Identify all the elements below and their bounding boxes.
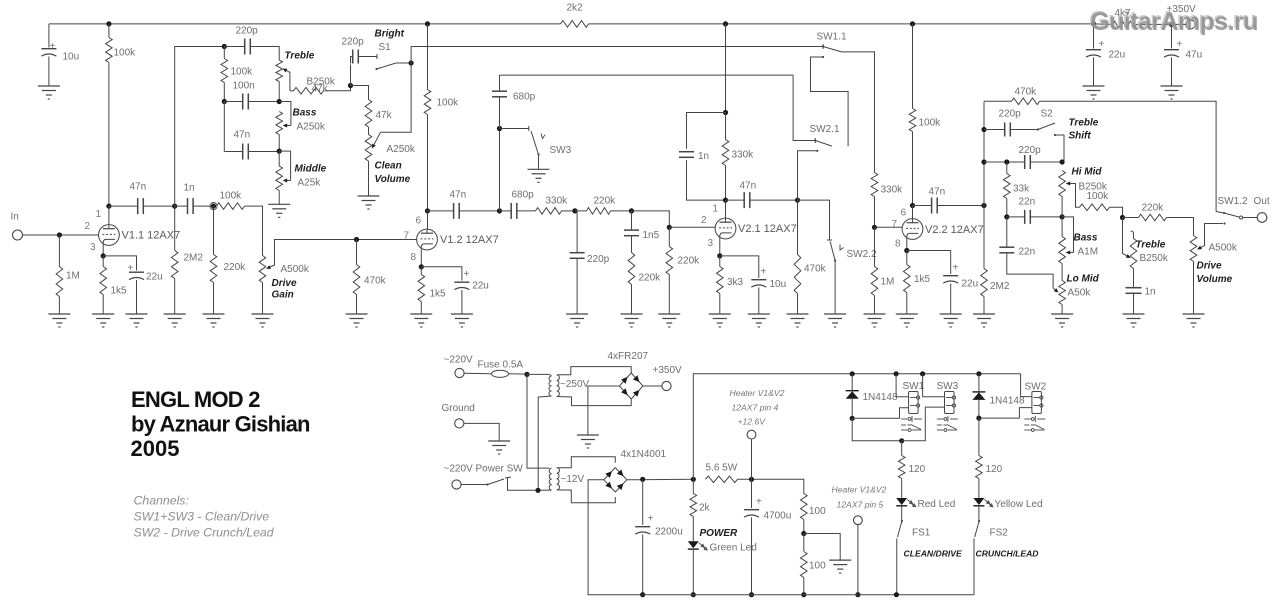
svg-text:1M: 1M <box>881 277 895 288</box>
wire tone2 top wire <box>984 161 1025 163</box>
resistor 220k grid leak V2.1 <box>666 247 673 275</box>
wire plate V2.1 to 47n <box>726 199 745 201</box>
label 47n coupling V1.1 <box>130 182 147 193</box>
junction cathode V2.2 <box>904 248 909 253</box>
wire 33k top lead <box>1006 162 1008 174</box>
wire 33k to 22n node <box>1006 199 1008 217</box>
svg-text:V2.1 12AX7: V2.1 12AX7 <box>738 223 797 235</box>
label 12AX7 pin 4 <box>732 403 779 413</box>
svg-text:680p: 680p <box>513 92 536 103</box>
junction himid top <box>1060 159 1065 164</box>
wire SW3 node up <box>499 129 501 211</box>
svg-text:3: 3 <box>708 238 714 249</box>
wire bridge2 minus down <box>588 480 643 595</box>
svg-text:SW2 - Drive Crunch/Lead: SW2 - Drive Crunch/Lead <box>134 526 275 540</box>
ground under bridge1 <box>577 435 599 448</box>
svg-text:220p: 220p <box>999 109 1022 120</box>
junction cathode V1.1 <box>101 253 106 258</box>
resistor 47k clean volume feed <box>365 100 372 128</box>
wire 330k feed to grid V2.2 <box>874 197 876 228</box>
svg-text:Gain: Gain <box>272 290 294 301</box>
svg-text:1N4148: 1N4148 <box>863 392 898 403</box>
wire drive volume wiper to SW1.2 <box>1205 224 1224 247</box>
wire 220p bleed top lead <box>575 211 577 253</box>
ground under 1k5 V1.2 <box>410 314 432 327</box>
capacitor 220p treble shift <box>1005 123 1011 137</box>
wire 47n mid to node <box>248 151 279 153</box>
svg-text:SW2.2: SW2.2 <box>847 249 877 260</box>
label A500k drive volume <box>1209 243 1238 254</box>
ground under 22u V1.2 <box>451 314 473 327</box>
resistor 100k plate V2.2 <box>909 109 916 132</box>
junction pin5 bottom <box>855 592 860 597</box>
title 2005 <box>131 436 180 461</box>
junction FS1 bottom <box>894 592 899 597</box>
arrow mark at SW2.2 <box>840 245 844 251</box>
svg-text:22u: 22u <box>472 281 489 292</box>
label SW1.1 <box>817 32 847 43</box>
junction S2 cap node <box>981 127 986 132</box>
wire plate lead V2.2 <box>912 206 914 219</box>
wire live to fuse <box>464 372 491 375</box>
ground under 220k no1 V2.1 <box>621 314 643 327</box>
wiper of Bass <box>283 124 291 128</box>
svg-text:SW1: SW1 <box>903 381 925 392</box>
resistor 2M2 drive leak <box>981 269 988 297</box>
wire 47n V1.2 to SW3 node <box>459 210 499 212</box>
label B250k treble2 <box>1140 253 1169 264</box>
potentiometer A500k Drive Gain <box>259 256 266 283</box>
ground under SW3 <box>528 169 550 182</box>
LED red <box>896 498 916 507</box>
stub top of treble2 <box>1131 231 1134 239</box>
label 1n5 <box>643 230 660 241</box>
wire 3k3 to ground <box>719 294 721 315</box>
wire red chain top <box>901 441 903 456</box>
wire bridge1 minus to ground <box>588 386 620 435</box>
capacitor 680p bypass <box>492 91 507 97</box>
triode V2.2 <box>902 219 923 240</box>
junction cathode V1.2 <box>419 264 424 269</box>
svg-text:In: In <box>11 212 19 223</box>
svg-text:100k: 100k <box>919 118 942 129</box>
wire 47n V2.1 to node <box>750 199 798 201</box>
wire 100k V1.2 top lead <box>427 24 429 90</box>
label 4k7 <box>1115 8 1132 19</box>
wire 22n shunt to lomid wiper <box>1007 253 1053 288</box>
resistor 4k7 (B+ dropper 2) <box>1113 21 1137 28</box>
wire 22n to bass node <box>1030 216 1062 218</box>
resistor 1M grid leak <box>56 267 63 297</box>
wire treble2 node down <box>1122 218 1124 254</box>
contact tick SW1.1 lower <box>822 56 824 58</box>
terminal In (input jack) <box>13 230 23 240</box>
svg-text:220p: 220p <box>342 37 365 48</box>
label + of 22u V2.2 <box>953 263 959 274</box>
wire bright cap left lead <box>351 57 353 64</box>
label Drive2 <box>1197 261 1222 272</box>
pin 2 of V1.1 <box>85 221 91 232</box>
svg-text:CLEAN/DRIVE: CLEAN/DRIVE <box>904 549 963 559</box>
svg-text:+12.6V: +12.6V <box>738 417 767 427</box>
junction 100n node <box>222 99 227 104</box>
junction 47n/1n node <box>172 204 177 209</box>
fuse F1 <box>492 370 509 377</box>
wire 100k to drive gain pot <box>245 206 263 255</box>
wire 330k V2.1 top lead <box>725 24 727 113</box>
wire 2M2 drive to ground <box>983 297 985 315</box>
resistor 5.6 5W <box>706 476 738 483</box>
contact tick power sw <box>505 477 511 478</box>
wire 1M V2.2 to ground <box>874 296 876 315</box>
label 1n treble2 <box>1145 287 1156 298</box>
label S1 <box>379 42 392 53</box>
wire node to 680p coupling <box>500 210 512 212</box>
ground under 220k node B <box>203 314 225 327</box>
junction plate V1.1 <box>106 204 111 209</box>
label ~12V <box>561 474 585 485</box>
wire 1k5 V2.2 to ground <box>906 293 908 315</box>
wire 10u to ground <box>48 57 50 87</box>
label Lo Mid <box>1067 274 1100 285</box>
label 2M2 no1 <box>184 253 204 264</box>
watermark GuitarAmps.ru <box>1089 7 1259 37</box>
capacitor 22u filter <box>1086 50 1101 57</box>
ground under 220k no2 V2.1 <box>658 314 680 327</box>
wire 100 lower to rail <box>803 578 805 595</box>
label CRUNCH/LEAD <box>976 549 1039 559</box>
wire 47k to clean volume pot <box>368 127 370 135</box>
switch S2 lever <box>1037 123 1055 131</box>
pin 8 of V1.2 <box>411 252 417 263</box>
wire plate V2.2 to 47n <box>913 205 932 207</box>
svg-text:Treble: Treble <box>285 51 315 62</box>
junction 100 lower bottom <box>801 592 806 597</box>
label 470k V1.2 <box>364 276 387 287</box>
wire 220k to ground <box>213 283 215 315</box>
resistor 100k plate V1.1 <box>106 38 113 63</box>
capacitor 680p coupling <box>511 203 517 219</box>
wire S1 to junction <box>396 62 411 64</box>
wire top out rail right <box>1040 101 1217 211</box>
ground under treble2 <box>1123 314 1145 327</box>
svg-text:1k5: 1k5 <box>914 274 931 285</box>
wire red led to FS1 <box>901 506 903 520</box>
svg-text:POWER: POWER <box>700 528 739 539</box>
wire 220p S2 out <box>1010 129 1037 131</box>
svg-text:22u: 22u <box>146 272 163 283</box>
secondary of T1 <box>557 375 560 397</box>
junction red led node <box>899 438 904 443</box>
wire 22u lead <box>1093 24 1095 49</box>
label 330k series <box>546 196 569 207</box>
junction 22n node left <box>1004 214 1009 219</box>
wire 220k no1 to ground <box>631 285 633 315</box>
switch FS1 lever <box>898 520 904 537</box>
svg-text:FS2: FS2 <box>990 528 1009 539</box>
label SW2 relay <box>1025 382 1047 393</box>
triode V2.1 <box>715 218 736 239</box>
resistor 3k3 cathode V2.1 <box>717 267 724 294</box>
label V2.1 12AX7 <box>738 223 797 235</box>
resistor 2k2 (B+ dropper) <box>561 21 589 28</box>
svg-text:10u: 10u <box>63 52 80 63</box>
svg-text:1n: 1n <box>698 151 709 162</box>
label Middle <box>295 164 327 175</box>
label 47n V1.2 <box>450 190 467 201</box>
potentiometer A250k Clean Volume <box>365 135 372 162</box>
ground humdinger <box>829 560 851 573</box>
svg-text:100k: 100k <box>231 67 254 78</box>
svg-text:220k: 220k <box>639 273 662 284</box>
svg-text:33k: 33k <box>1013 184 1030 195</box>
svg-text:Volume: Volume <box>375 174 411 185</box>
label S2 <box>1041 109 1054 120</box>
resistor 220k to drive volume <box>1139 214 1167 221</box>
wire 470k top lead <box>356 240 358 265</box>
resistor 47k treble out <box>294 88 324 95</box>
junction B+/22u <box>1091 21 1096 26</box>
wire cathode to 10u <box>720 256 759 278</box>
svg-text:100k: 100k <box>437 98 460 109</box>
wire 680p top rail to SW2.1 <box>500 75 816 140</box>
wire top out rail left <box>984 100 1012 102</box>
capacitor 22u cathode V1.2 <box>454 282 469 289</box>
switch SW2.1 lever <box>814 139 832 146</box>
svg-text:V1.2 12AX7: V1.2 12AX7 <box>440 234 499 246</box>
resistor 470k grid V1.2 <box>353 265 360 295</box>
wire B+ down to 10u <box>48 24 50 48</box>
terminal Out <box>1257 213 1267 223</box>
potentiometer A500k Drive Volume <box>1190 236 1197 262</box>
label 220k series <box>594 196 617 207</box>
label SW1 relay <box>903 381 925 392</box>
label 22u V2.2 <box>962 279 979 290</box>
label 680p bypass <box>513 92 536 103</box>
label 1M V2.2 <box>881 277 895 288</box>
capacitor 22u cathode V1.1 <box>129 272 144 279</box>
wire 47u lead <box>1171 24 1173 48</box>
wiper of Lo Mid <box>1053 288 1058 293</box>
contact tick S2 lower <box>1054 134 1056 136</box>
label + of 22u <box>1099 39 1105 50</box>
svg-text:2k: 2k <box>699 503 711 514</box>
wire S1 node down to volume wiper <box>381 63 412 132</box>
wire cathode to 1k5 <box>102 256 104 267</box>
svg-text:+: + <box>756 497 762 508</box>
relay coil SW3 <box>945 392 956 414</box>
wire T2 sec bottom lead <box>557 490 616 503</box>
ground under 1M <box>48 314 70 327</box>
svg-text:2: 2 <box>701 215 707 226</box>
capacitor 10u cathode V2.1 <box>751 280 766 287</box>
wire 4700u to rail <box>751 518 753 595</box>
svg-text:Ground: Ground <box>442 403 475 414</box>
wire T1 primary bottom lead <box>538 396 551 490</box>
junction green led bottom <box>691 592 696 597</box>
svg-text:100n: 100n <box>233 81 255 92</box>
svg-text:SW2.1: SW2.1 <box>810 124 840 135</box>
wire SW1.1 out <box>842 52 875 173</box>
svg-text:~250V: ~250V <box>560 379 590 390</box>
wire 470k drive to ground <box>797 294 799 315</box>
label 22u V1.2 <box>472 281 489 292</box>
capacitor 220p tone2 <box>1025 155 1031 169</box>
svg-text:SW1.2: SW1.2 <box>1218 196 1248 207</box>
ground under 10u <box>38 86 60 99</box>
svg-text:1k5: 1k5 <box>430 289 447 300</box>
terminal ~220V live <box>455 368 464 377</box>
svg-text:Heater V1&V2: Heater V1&V2 <box>832 485 887 495</box>
capacitor 47n mid <box>243 144 249 160</box>
wire 100k plate top lead <box>108 24 110 38</box>
junction grid V1.2 / 470k <box>354 237 359 242</box>
wire himid bottom <box>1061 197 1063 217</box>
wire plate V1.1 drop <box>108 63 110 207</box>
junction grid V2.1 / 220k <box>667 225 672 230</box>
terminal +350V PSU <box>662 381 671 390</box>
wire power sw out <box>508 478 539 490</box>
wire 12V riser <box>693 374 1020 480</box>
ground under 2M2 no1 <box>164 314 186 327</box>
label Heater pin5 line1 <box>832 485 887 495</box>
wire middle pot to ground <box>278 191 280 205</box>
label A1M <box>1078 247 1099 258</box>
junction drive node V2.1 out <box>795 198 800 203</box>
wire tone2 vertical <box>983 101 985 268</box>
label 47n mid <box>234 130 251 141</box>
contact tick SW1.1 <box>822 44 824 49</box>
potentiometer Treble2 B250k <box>1130 239 1137 269</box>
wire SW3 stub <box>500 128 529 130</box>
wire SW1.1 NC loop <box>811 57 849 146</box>
label 1N4148 no1 <box>863 392 898 403</box>
svg-text:Drive: Drive <box>1197 261 1222 272</box>
resistor 470k output feed <box>1012 98 1040 105</box>
svg-text:5.6 5W: 5.6 5W <box>706 463 738 474</box>
label 3k3 <box>727 277 744 288</box>
label B250k treble <box>307 77 336 88</box>
label V2.2 12AX7 <box>925 224 984 236</box>
label Volume2 <box>1197 274 1233 285</box>
junction rail/SW3 <box>920 371 925 376</box>
label + of 4700u <box>756 497 762 508</box>
capacitor 47u filter <box>1164 50 1179 57</box>
wiper of Hi Mid <box>1066 182 1074 186</box>
svg-text:330k: 330k <box>732 150 755 161</box>
label 12AX7 pin 5 <box>837 500 884 510</box>
wire cathode lead V1.1 <box>102 245 104 256</box>
svg-text:GuitarAmps.ru: GuitarAmps.ru <box>1091 8 1259 36</box>
wire drive volume to ground <box>1193 262 1195 315</box>
junction treble2 node <box>1120 215 1125 220</box>
svg-text:1: 1 <box>96 209 102 220</box>
wire bass2 wiper tie <box>1062 217 1073 253</box>
label 22u V1.1 <box>146 272 163 283</box>
wire 22u to ground <box>1093 58 1095 87</box>
label Drive <box>272 278 297 289</box>
junction rail/SW1 <box>894 371 899 376</box>
svg-text:A250k: A250k <box>387 144 416 155</box>
resistor 1k5 cathode V1.2 <box>418 275 425 302</box>
svg-text:8: 8 <box>411 252 417 263</box>
svg-text:470k: 470k <box>364 276 387 287</box>
wire 2200u to rail <box>642 535 644 595</box>
svg-text:12AX7 pin 5: 12AX7 pin 5 <box>837 500 884 510</box>
capacitor 220p HF bleed <box>570 253 585 259</box>
capacitor 47n coupling V2.1 <box>744 192 750 208</box>
junction tone stack input <box>222 44 227 49</box>
wire drive node to SW2.2 <box>798 200 830 240</box>
wire 330k to junction <box>562 210 575 212</box>
wire T1 sec top lead <box>557 367 632 375</box>
terminal mains ground <box>455 419 464 428</box>
wire T2 sec top lead <box>557 457 616 468</box>
contact tick SW2.1 <box>814 138 816 143</box>
terminal ~220V neutral <box>452 480 461 489</box>
pin 6 of V2.2 <box>901 208 907 219</box>
junction grid V2.2 <box>872 225 877 230</box>
junction fuse node <box>524 372 529 377</box>
wire 22n left lead <box>1007 216 1025 218</box>
svg-text:22u: 22u <box>1109 50 1126 61</box>
capacitor 1n plate bypass <box>679 152 694 158</box>
junction S1/volume node <box>409 60 414 65</box>
wire 10u to ground <box>758 288 760 315</box>
relay coil SW2 <box>1032 392 1043 414</box>
label + of 2200u <box>648 514 654 525</box>
wire FS2 to rail <box>973 539 975 595</box>
svg-text:A50k: A50k <box>1068 288 1092 299</box>
label A250k bass <box>297 122 326 133</box>
label SW2.2 <box>847 249 877 260</box>
wire heater terminal lead <box>751 439 753 479</box>
svg-text:+: + <box>648 514 654 525</box>
svg-text:+: + <box>128 263 134 274</box>
diode 1N4148 no1 <box>846 391 859 399</box>
svg-text:V2.2 12AX7: V2.2 12AX7 <box>925 224 984 236</box>
wire 220k to V2.1 node <box>611 210 632 212</box>
svg-text:A1M: A1M <box>1078 247 1099 258</box>
wire fuse to junction <box>509 373 528 375</box>
svg-text:2: 2 <box>85 221 91 232</box>
label 1k5 V2.2 <box>914 274 931 285</box>
capacitor 100n bass <box>243 94 249 110</box>
svg-text:+: + <box>953 263 959 274</box>
wire plate V1.1 to 47n <box>109 205 138 207</box>
contact circle SW1.2 <box>1240 216 1243 219</box>
svg-text:6: 6 <box>901 208 907 219</box>
wire rail to SW1 coil <box>896 374 909 397</box>
wire 220p tone2 to himid <box>1030 161 1062 163</box>
label Gain <box>272 290 294 301</box>
svg-text:Volume: Volume <box>1197 274 1233 285</box>
label Treble2 <box>1136 240 1166 251</box>
wire bass wiper tie <box>279 102 291 126</box>
label 22u filter <box>1109 50 1126 61</box>
label 22n shunt <box>1019 247 1036 258</box>
capacitor 220p treble <box>245 39 251 55</box>
label B250k himid <box>1079 182 1108 193</box>
potentiometer Middle A25k <box>276 166 283 191</box>
label Ground mains <box>442 403 475 414</box>
label 47n V2.2 <box>929 187 946 198</box>
wire T2 primary bottom lead <box>538 489 552 491</box>
junction rail/diode1 <box>850 371 855 376</box>
label 47k clean <box>376 110 393 121</box>
resistor 2k green led <box>690 494 697 517</box>
bridge rectifier 4x1N4001 <box>604 468 627 492</box>
